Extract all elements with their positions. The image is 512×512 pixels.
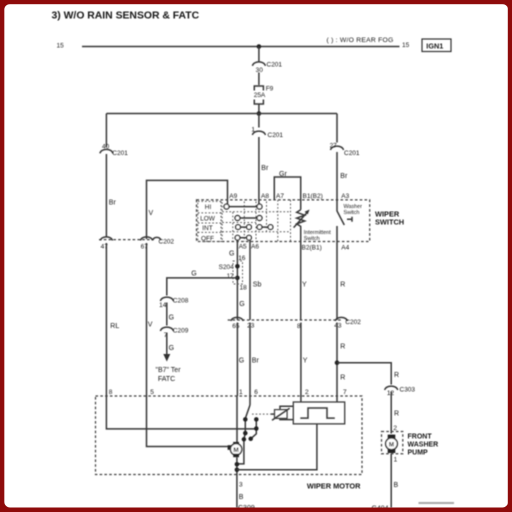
svg-text:23: 23 [247, 323, 255, 330]
svg-text:C201: C201 [268, 132, 284, 139]
svg-text:A3: A3 [341, 193, 349, 200]
svg-text:G: G [239, 358, 244, 365]
svg-text:C303: C303 [400, 387, 416, 394]
svg-text:FATC: FATC [158, 376, 175, 383]
svg-text:G: G [191, 270, 196, 277]
svg-text:C201: C201 [267, 62, 283, 69]
svg-text:1: 1 [394, 456, 398, 463]
svg-text:A7: A7 [276, 193, 284, 200]
svg-text:B: B [239, 494, 244, 501]
svg-text:LOW: LOW [200, 216, 216, 223]
svg-text:Sb: Sb [253, 281, 262, 288]
svg-text:65: 65 [232, 323, 240, 330]
svg-text:47: 47 [101, 243, 109, 250]
svg-text:SWITCH: SWITCH [375, 218, 404, 227]
svg-text:R: R [394, 411, 399, 418]
svg-text:Br: Br [109, 200, 117, 207]
svg-text:M: M [389, 442, 394, 449]
svg-text:3) W/O RAIN SENSOR & FATC: 3) W/O RAIN SENSOR & FATC [52, 11, 200, 22]
svg-text:18: 18 [240, 285, 248, 292]
svg-text:C201: C201 [344, 150, 360, 157]
svg-text:A6: A6 [251, 244, 259, 251]
svg-text:G: G [239, 301, 244, 308]
svg-text:R: R [340, 281, 345, 288]
svg-text:43: 43 [334, 322, 342, 329]
svg-text:A5: A5 [239, 244, 247, 251]
svg-text:Gr: Gr [279, 171, 287, 178]
svg-text:FRONT: FRONT [408, 434, 433, 441]
svg-text:3: 3 [239, 482, 243, 489]
svg-text:Y: Y [302, 281, 307, 288]
svg-text:M: M [233, 447, 238, 454]
svg-text:( ) : W/O REAR FOG: ( ) : W/O REAR FOG [327, 37, 394, 44]
svg-text:B1(B2): B1(B2) [303, 193, 323, 200]
svg-text:R: R [394, 372, 399, 379]
svg-text:6: 6 [254, 389, 258, 396]
svg-text:Br: Br [340, 173, 348, 180]
svg-text:C202: C202 [345, 319, 361, 326]
svg-text:B2(B1): B2(B1) [302, 245, 322, 252]
svg-text:R: R [340, 375, 345, 382]
svg-text:14: 14 [159, 302, 167, 309]
svg-text:S204: S204 [219, 264, 235, 271]
svg-text:1: 1 [239, 389, 243, 396]
svg-text:INT: INT [202, 225, 213, 232]
svg-text:B: B [394, 482, 399, 489]
svg-text:V: V [149, 210, 154, 217]
svg-text:G: G [169, 315, 174, 322]
svg-text:R: R [340, 344, 345, 351]
svg-text:"B7" Ter: "B7" Ter [155, 367, 181, 374]
svg-text:2: 2 [305, 389, 309, 396]
svg-text:Switch: Switch [304, 236, 320, 242]
svg-text:16: 16 [238, 255, 246, 262]
svg-text:C208: C208 [173, 298, 189, 305]
svg-text:A9: A9 [229, 193, 237, 200]
svg-text:27: 27 [330, 143, 338, 150]
svg-text:WIPER MOTOR: WIPER MOTOR [307, 482, 361, 491]
svg-text:HI: HI [205, 204, 212, 211]
svg-text:Y: Y [303, 358, 308, 365]
svg-text:Br: Br [252, 358, 260, 365]
svg-text:OFF: OFF [201, 235, 214, 242]
svg-text:5: 5 [150, 389, 154, 396]
svg-text:A8: A8 [261, 193, 269, 200]
svg-text:15: 15 [57, 42, 65, 49]
svg-text:WASHER: WASHER [408, 442, 439, 449]
svg-text:Br: Br [261, 165, 269, 172]
svg-text:IGN1: IGN1 [426, 41, 443, 50]
svg-text:7: 7 [343, 389, 347, 396]
svg-text:25A: 25A [254, 92, 266, 99]
svg-text:PUMP: PUMP [408, 450, 429, 457]
svg-text:G: G [169, 345, 174, 352]
svg-text:C209: C209 [173, 328, 189, 335]
svg-text:1: 1 [251, 127, 255, 134]
svg-text:A4: A4 [341, 244, 349, 251]
svg-text:C201: C201 [112, 150, 128, 157]
svg-text:Switch: Switch [344, 210, 360, 216]
svg-text:C202: C202 [159, 239, 175, 246]
svg-text:RL: RL [110, 323, 119, 330]
svg-text:F9: F9 [266, 86, 274, 93]
svg-text:V: V [148, 322, 153, 329]
svg-text:40: 40 [102, 144, 110, 151]
svg-text:15: 15 [402, 42, 410, 49]
svg-text:8: 8 [109, 389, 113, 396]
svg-text:G: G [229, 250, 234, 257]
